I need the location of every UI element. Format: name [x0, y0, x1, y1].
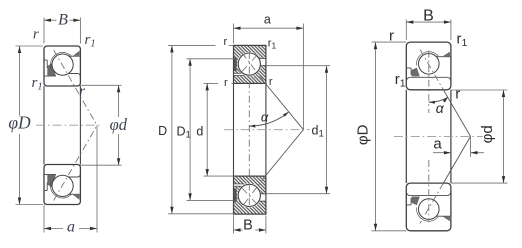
- middle label d1: [312, 123, 324, 139]
- right bearing upper cross-section: [406, 42, 451, 90]
- middle second contact diagonal upper ball: [242, 56, 256, 71]
- middle contact line upper (dash-dot in section): [242, 53, 266, 84]
- right label a: [433, 135, 442, 152]
- middle dimension d lines+arrows: [204, 83, 234, 176]
- svg-text:a: a: [433, 135, 442, 152]
- middle contact line lower (solid from apex): [266, 130, 304, 176]
- right contact line lower (solid): [443, 136, 470, 183]
- middle dimension d1 lines+arrows: [266, 66, 330, 194]
- middle contact angle alpha arc: [249, 112, 288, 128]
- right label r right-mid: [455, 86, 460, 103]
- middle label B: [243, 218, 253, 234]
- middle bearing lower cross-section (hatched rings + ball): [234, 176, 266, 214]
- left label r1 top-right: [85, 32, 96, 50]
- right dimension phid lines+arrows: [451, 90, 508, 183]
- middle label r right-mid: [269, 76, 273, 88]
- middle dimension B lines+arrows: [234, 215, 266, 233]
- svg-text:B: B: [58, 11, 68, 28]
- middle horizontal centerline: [224, 129, 310, 131]
- left label phiD: [8, 112, 31, 132]
- right horizontal centerline: [394, 135, 483, 137]
- middle contact line upper (solid to apex): [266, 84, 304, 130]
- left label r1 left-mid: [32, 75, 43, 93]
- right contact line lower (dash-dot): [420, 183, 443, 223]
- svg-text:D: D: [158, 124, 167, 138]
- middle label D: [158, 124, 167, 138]
- middle label r left-mid: [224, 77, 228, 89]
- svg-text:r1: r1: [268, 38, 277, 51]
- middle contact line lower (dash-dot in section): [242, 176, 266, 207]
- svg-text:B: B: [423, 8, 434, 25]
- right radial dash-dot upper: [428, 51, 430, 114]
- middle bearing bore lines: [234, 83, 266, 176]
- svg-text:α: α: [436, 100, 445, 116]
- right contact angle alpha arc: [429, 97, 448, 104]
- right bearing lower cross-section: [406, 183, 451, 231]
- svg-text:r: r: [455, 86, 460, 103]
- left label B: [58, 11, 68, 28]
- right radial dash-dot lower: [428, 160, 430, 223]
- svg-text:r: r: [33, 26, 39, 42]
- middle label r1 top-right: [268, 38, 277, 51]
- middle label d: [196, 124, 203, 138]
- left dimension phiD lines+arrows: [16, 46, 44, 205]
- svg-text:d: d: [196, 124, 203, 138]
- right bearing bore lines: [406, 90, 451, 183]
- left label r top-left: [33, 26, 39, 42]
- svg-text:φD: φD: [354, 124, 371, 145]
- left label a: [67, 218, 75, 235]
- right label r1 top-right: [457, 31, 468, 50]
- right contact line upper (solid to apex): [443, 90, 470, 137]
- left contact line lower: [54, 125, 97, 200]
- right dimension B lines+arrows: [406, 20, 451, 41]
- svg-text:a: a: [67, 218, 75, 235]
- left dimension B lines+arrows: [44, 18, 80, 44]
- right label r1 left-mid: [395, 71, 406, 90]
- middle label a: [264, 13, 271, 27]
- right label B: [423, 8, 434, 25]
- middle dimension a lines+arrows: [234, 24, 304, 130]
- svg-text:φd: φd: [479, 125, 496, 143]
- right dimension phiD lines+arrows: [372, 42, 407, 231]
- left label phid: [110, 115, 128, 134]
- left bearing lower cross-section (mirrored): [44, 165, 80, 205]
- middle second contact diagonal lower ball: [242, 188, 256, 203]
- left horizontal centerline: [36, 124, 102, 126]
- svg-text:a: a: [264, 13, 271, 27]
- middle bearing upper cross-section (hatched rings + ball): [234, 45, 266, 83]
- svg-text:r: r: [223, 36, 227, 48]
- left dimension phid lines+arrows: [80, 85, 121, 165]
- middle radial dash-dot line through balls: [248, 52, 250, 208]
- middle dimension D1 lines+arrows: [187, 59, 234, 201]
- left label r inner-right: [79, 84, 85, 100]
- left contact line upper: [54, 50, 97, 125]
- middle label r top-left: [223, 36, 227, 48]
- svg-text:r: r: [79, 84, 85, 100]
- right label phid: [479, 125, 496, 143]
- right label phiD: [354, 124, 371, 145]
- middle dimension D lines+arrows: [168, 45, 234, 213]
- left bearing bore lines: [44, 86, 80, 165]
- right contact line upper (dash-dot): [420, 50, 443, 90]
- svg-text:α: α: [261, 109, 269, 124]
- svg-text:r: r: [269, 76, 273, 88]
- svg-text:φD: φD: [8, 112, 31, 132]
- right label r top-left: [389, 27, 394, 44]
- right label alpha: [436, 100, 445, 116]
- middle label alpha: [261, 109, 269, 124]
- right dimension a lines+arrows: [433, 136, 484, 157]
- middle label D1: [177, 124, 191, 140]
- svg-text:B: B: [243, 218, 253, 234]
- svg-text:r: r: [389, 27, 394, 44]
- svg-text:φd: φd: [110, 115, 128, 134]
- left dimension a lines+arrows: [44, 125, 97, 232]
- svg-text:r: r: [224, 77, 228, 89]
- left bearing upper cross-section (outer ring, cage, ball, inner ring): [44, 46, 80, 86]
